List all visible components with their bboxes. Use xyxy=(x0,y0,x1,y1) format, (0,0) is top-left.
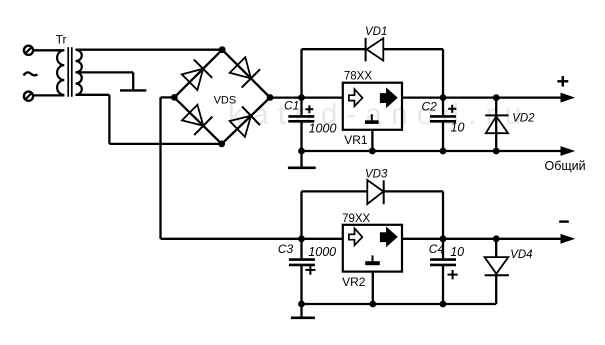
C4 plus mark xyxy=(448,270,458,279)
wire - rail C3 to VR2 xyxy=(302,238,343,240)
wire VD1 left vertical xyxy=(300,49,302,97)
label C3 xyxy=(278,242,294,256)
wire feed vertical xyxy=(159,97,161,238)
label VD1 xyxy=(365,26,387,38)
svg-text:VDS: VDS xyxy=(214,94,237,106)
label + output xyxy=(557,76,568,86)
watermark xyxy=(228,98,530,131)
output arrow + xyxy=(561,93,574,101)
node VD2 top xyxy=(493,94,500,101)
VR2 common pin symbol xyxy=(365,255,380,265)
transformer Tr primary winding xyxy=(57,50,64,95)
wire to bridge bottom node xyxy=(109,143,221,145)
C2 plus mark xyxy=(448,105,456,113)
label C4 value 10 xyxy=(450,245,464,259)
node VR1 common xyxy=(369,148,376,155)
svg-text:VR2: VR2 xyxy=(342,275,366,289)
diode VD2 xyxy=(485,115,508,133)
node C4 bottom xyxy=(440,301,447,308)
bridge edge B-R xyxy=(222,98,270,144)
label VR2 xyxy=(342,275,366,289)
wire VD3 left vertical xyxy=(300,191,302,238)
bridge diode (T to R) xyxy=(230,57,260,87)
capacitor C3 xyxy=(289,260,315,265)
label VD2 xyxy=(512,113,535,125)
wire VR1 common pin xyxy=(371,130,373,151)
C3 plus mark xyxy=(305,265,315,274)
node bridge left xyxy=(171,94,178,101)
wire feed horizontal xyxy=(161,238,302,240)
label 79XX xyxy=(342,213,370,225)
wire VD1 top right xyxy=(383,48,443,50)
svg-text:C3: C3 xyxy=(278,242,294,256)
input terminal (bottom) xyxy=(24,92,33,101)
svg-text:C2: C2 xyxy=(422,100,438,114)
bridge diode (L to B) xyxy=(182,105,212,135)
label C3 value 1000 xyxy=(308,245,336,259)
label C2 value 10 xyxy=(451,120,465,134)
node C3 top xyxy=(298,235,305,242)
transformer Tr secondary winding xyxy=(76,50,82,95)
node VD4 top xyxy=(493,235,500,242)
wire primary top lead xyxy=(33,49,64,51)
wire VD3 right vertical xyxy=(442,191,444,238)
label VD3 xyxy=(365,169,388,181)
ground (center tap) xyxy=(120,89,146,91)
node bridge bottom xyxy=(218,141,225,148)
wire C4 top xyxy=(442,239,444,259)
svg-text:VD3: VD3 xyxy=(365,169,388,181)
diode VD4 xyxy=(485,257,509,275)
capacitor C4 xyxy=(430,260,456,265)
node bridge top xyxy=(219,46,226,53)
svg-text:Tr: Tr xyxy=(56,33,67,47)
svg-text:Общий: Общий xyxy=(545,159,586,173)
wire bridge L to feed corner xyxy=(161,96,175,98)
wire ground stub (top section) xyxy=(300,151,302,167)
capacitor C1 xyxy=(288,116,314,121)
wire VD1 top left xyxy=(302,48,366,50)
wire center tap vertical xyxy=(132,72,134,90)
wire VR2 common pin xyxy=(372,272,374,304)
wire C4 bottom xyxy=(442,265,444,304)
label C1 xyxy=(284,98,299,112)
svg-text:78XX: 78XX xyxy=(344,70,372,82)
svg-text:79XX: 79XX xyxy=(342,213,370,225)
wire C3 top xyxy=(300,239,302,259)
ground (bottom section) xyxy=(291,316,315,319)
VR2 input arrow (outlined) xyxy=(349,228,363,245)
wire + rail bridge to VR1 xyxy=(270,96,343,98)
svg-text:10: 10 xyxy=(450,245,464,259)
regulator VR1 78XX box xyxy=(343,83,402,130)
svg-text:10: 10 xyxy=(451,120,465,134)
svg-text:C1: C1 xyxy=(284,98,299,112)
wire VD2 xyxy=(495,98,497,151)
regulator VR2 79XX box xyxy=(343,225,402,272)
wire VD4 bottom xyxy=(495,275,497,304)
output arrow - xyxy=(561,235,574,243)
svg-text:VD1: VD1 xyxy=(365,26,387,38)
node C3 bottom xyxy=(298,301,305,308)
wire C3 bottom xyxy=(300,265,302,304)
wire center tap horizontal xyxy=(76,71,134,73)
bridge diode (B to R) xyxy=(230,106,260,137)
node C1 bottom xyxy=(298,148,305,155)
wire secondary bottom vertical xyxy=(108,95,110,144)
wire + rail VR1 to arrow xyxy=(402,96,563,98)
bridge edge L-B xyxy=(174,97,221,143)
input terminal (top) xyxy=(24,46,33,55)
label C2 xyxy=(422,100,438,114)
label Tr xyxy=(56,33,67,47)
wire C1 top xyxy=(300,98,302,116)
bridge edge L-T xyxy=(174,50,222,98)
wire common rail xyxy=(302,150,563,152)
diode VD3 xyxy=(367,180,383,204)
label C1 value 1000 xyxy=(309,122,337,136)
wire C2 bottom xyxy=(442,121,444,151)
label VR1 xyxy=(344,133,368,147)
C1 plus mark xyxy=(306,105,314,113)
wire secondary bottom horizontal xyxy=(76,94,110,96)
svg-text:C4: C4 xyxy=(429,242,445,256)
wire bottom rail xyxy=(302,303,497,305)
svg-text:1000: 1000 xyxy=(308,245,336,259)
VR1 output arrow (filled) xyxy=(380,89,397,108)
svg-text:VD2: VD2 xyxy=(512,113,535,125)
node C4 top xyxy=(440,235,447,242)
VR1 common pin symbol xyxy=(365,114,379,124)
wire primary bottom lead xyxy=(33,94,64,96)
node VR2 common xyxy=(369,301,376,308)
VR2 output arrow (filled) xyxy=(380,228,397,247)
bridge edge T-R xyxy=(222,50,270,98)
node bridge right xyxy=(267,94,274,101)
node VD2 bottom xyxy=(493,148,500,155)
svg-text:katod-anod.ru: katod-anod.ru xyxy=(228,98,530,131)
bridge diode (L to T) xyxy=(182,60,212,90)
wire secondary top to bridge xyxy=(76,49,223,51)
capacitor C2 xyxy=(430,116,456,121)
wire ground stub (bottom section) xyxy=(300,304,302,317)
label 78XX xyxy=(344,70,372,82)
svg-text:VD4: VD4 xyxy=(510,249,532,261)
label VDS xyxy=(214,94,237,106)
diode VD1 xyxy=(366,38,384,62)
wire VD4 top xyxy=(495,239,497,257)
node C2 bottom xyxy=(440,148,447,155)
svg-text:1000: 1000 xyxy=(309,122,337,136)
AC symbol ~ xyxy=(24,72,38,75)
node C2 top xyxy=(440,94,447,101)
transformer Tr core xyxy=(68,47,72,97)
label Общий xyxy=(545,159,586,173)
wire C2 top xyxy=(442,98,444,116)
node C1 top xyxy=(298,94,305,101)
wire VD3 top right xyxy=(384,190,443,192)
output arrow common xyxy=(561,147,574,155)
wire C1 bottom xyxy=(300,121,302,151)
wire VD3 top left xyxy=(302,190,368,192)
label VD4 xyxy=(510,249,532,261)
wire VD1 right vertical xyxy=(442,49,444,97)
label C4 xyxy=(429,242,445,256)
label - output xyxy=(559,220,569,222)
ground (top section) xyxy=(288,167,316,170)
wire - rail VR2 to arrow xyxy=(402,238,563,240)
VR1 input arrow (outlined) xyxy=(349,89,363,106)
svg-text:VR1: VR1 xyxy=(344,133,368,147)
